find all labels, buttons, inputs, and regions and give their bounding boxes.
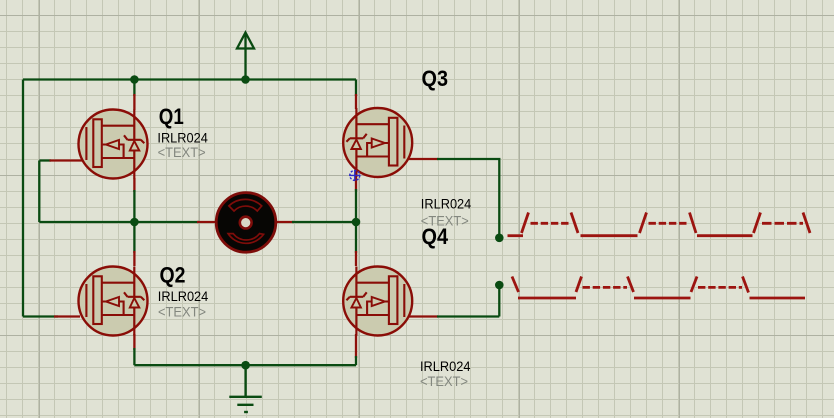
transistor Q3 [343, 108, 412, 177]
wire motor to node B [292, 221, 356, 223]
wire node A to Q2 drain [133, 222, 135, 253]
svg-text:<TEXT>: <TEXT> [420, 374, 468, 389]
wire left vertical [22, 80, 24, 317]
wire Q4 source to ground rail [355, 356, 357, 365]
wire Q1 gate loop vertical [38, 161, 40, 223]
pin Q3 drain [355, 94, 357, 109]
wire V+ to Q3 drain [355, 80, 357, 97]
wire Q1 gate loop horizontal to node A [39, 221, 134, 223]
junction node pulse 1 [495, 234, 504, 243]
svg-text:Q3: Q3 [422, 66, 449, 91]
svg-text:IRLR024: IRLR024 [157, 130, 208, 146]
wire Q3 gate to pulse 1 [437, 159, 499, 238]
blue origin marker [349, 170, 360, 181]
wire top rail [23, 78, 356, 80]
junction node B [352, 218, 361, 227]
junction node ground [241, 361, 250, 370]
svg-text:IRLR024: IRLR024 [158, 288, 209, 304]
transistor Q2 [79, 267, 148, 336]
wire V+ to Q1 drain [133, 80, 135, 97]
svg-text:IRLR024: IRLR024 [421, 195, 472, 211]
wire Q2 gate [23, 315, 58, 317]
pin motor right [276, 221, 294, 223]
pin Q2 source [133, 334, 135, 350]
pulse waveform 1 (upper) [508, 213, 811, 236]
junction node pulse 2 [495, 281, 504, 290]
wire Q4 gate to pulse 2 [437, 285, 499, 317]
transistor Q1 [79, 110, 148, 179]
svg-text:<TEXT>: <TEXT> [158, 145, 206, 160]
pin motor left [197, 221, 216, 223]
transistor Q4 [343, 267, 412, 336]
wire Q1 source to node A [133, 190, 135, 222]
wire Q1 gate [39, 159, 51, 161]
svg-text:Q1: Q1 [159, 104, 184, 129]
pin Q1 source [133, 178, 135, 192]
power V+ symbol [237, 33, 254, 80]
motor M1 [216, 193, 276, 253]
wire Q2 source to ground rail [133, 348, 135, 365]
svg-text:Q4: Q4 [422, 224, 449, 249]
pin Q3 source [355, 177, 357, 192]
pin Q2 gate [54, 315, 80, 317]
wire node B to Q4 drain [355, 222, 357, 253]
pin Q1 gate [50, 159, 88, 161]
wire Q3 source to node B [355, 189, 357, 222]
pin Q4 gate [407, 315, 439, 317]
junction node power [241, 75, 250, 84]
junction node top-left [130, 75, 139, 84]
pin Q4 drain [355, 251, 357, 266]
wire ground rail [134, 364, 356, 366]
ground symbol [229, 365, 261, 412]
pin Q2 drain [133, 251, 135, 266]
pin Q1 drain [133, 94, 135, 110]
pin Q4 source [355, 334, 357, 358]
pin Q3 gate [407, 158, 439, 160]
svg-text:Q2: Q2 [160, 262, 186, 287]
svg-text:IRLR024: IRLR024 [420, 358, 471, 374]
pulse waveform 2 (lower) [512, 277, 805, 299]
wire node A to motor [134, 221, 199, 223]
junction node A [130, 218, 139, 227]
svg-text:<TEXT>: <TEXT> [158, 304, 206, 319]
